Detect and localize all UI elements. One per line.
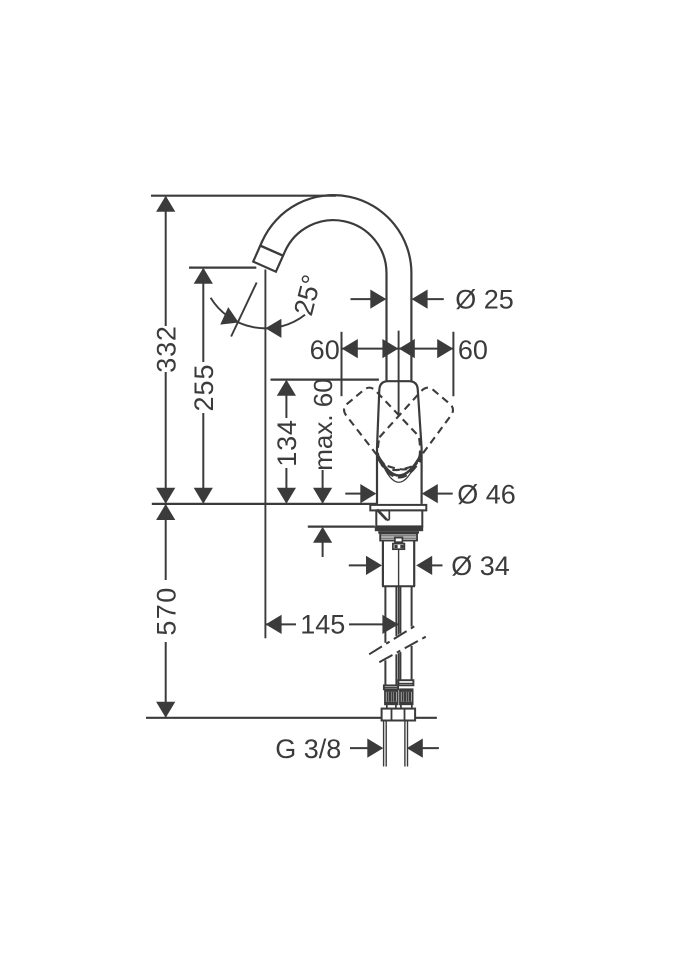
svg-text:G 3/8: G 3/8 xyxy=(275,734,341,764)
svg-text:332: 332 xyxy=(151,325,181,372)
svg-text:Ø 46: Ø 46 xyxy=(457,480,516,510)
svg-text:Ø 34: Ø 34 xyxy=(451,551,510,581)
svg-text:145: 145 xyxy=(300,610,345,640)
svg-text:60: 60 xyxy=(458,335,488,365)
svg-text:570: 570 xyxy=(151,586,181,635)
svg-text:max. 60: max. 60 xyxy=(308,378,338,471)
svg-text:Ø 25: Ø 25 xyxy=(455,284,514,314)
svg-text:255: 255 xyxy=(189,363,219,411)
svg-text:60: 60 xyxy=(310,335,340,365)
svg-text:134: 134 xyxy=(272,419,302,466)
